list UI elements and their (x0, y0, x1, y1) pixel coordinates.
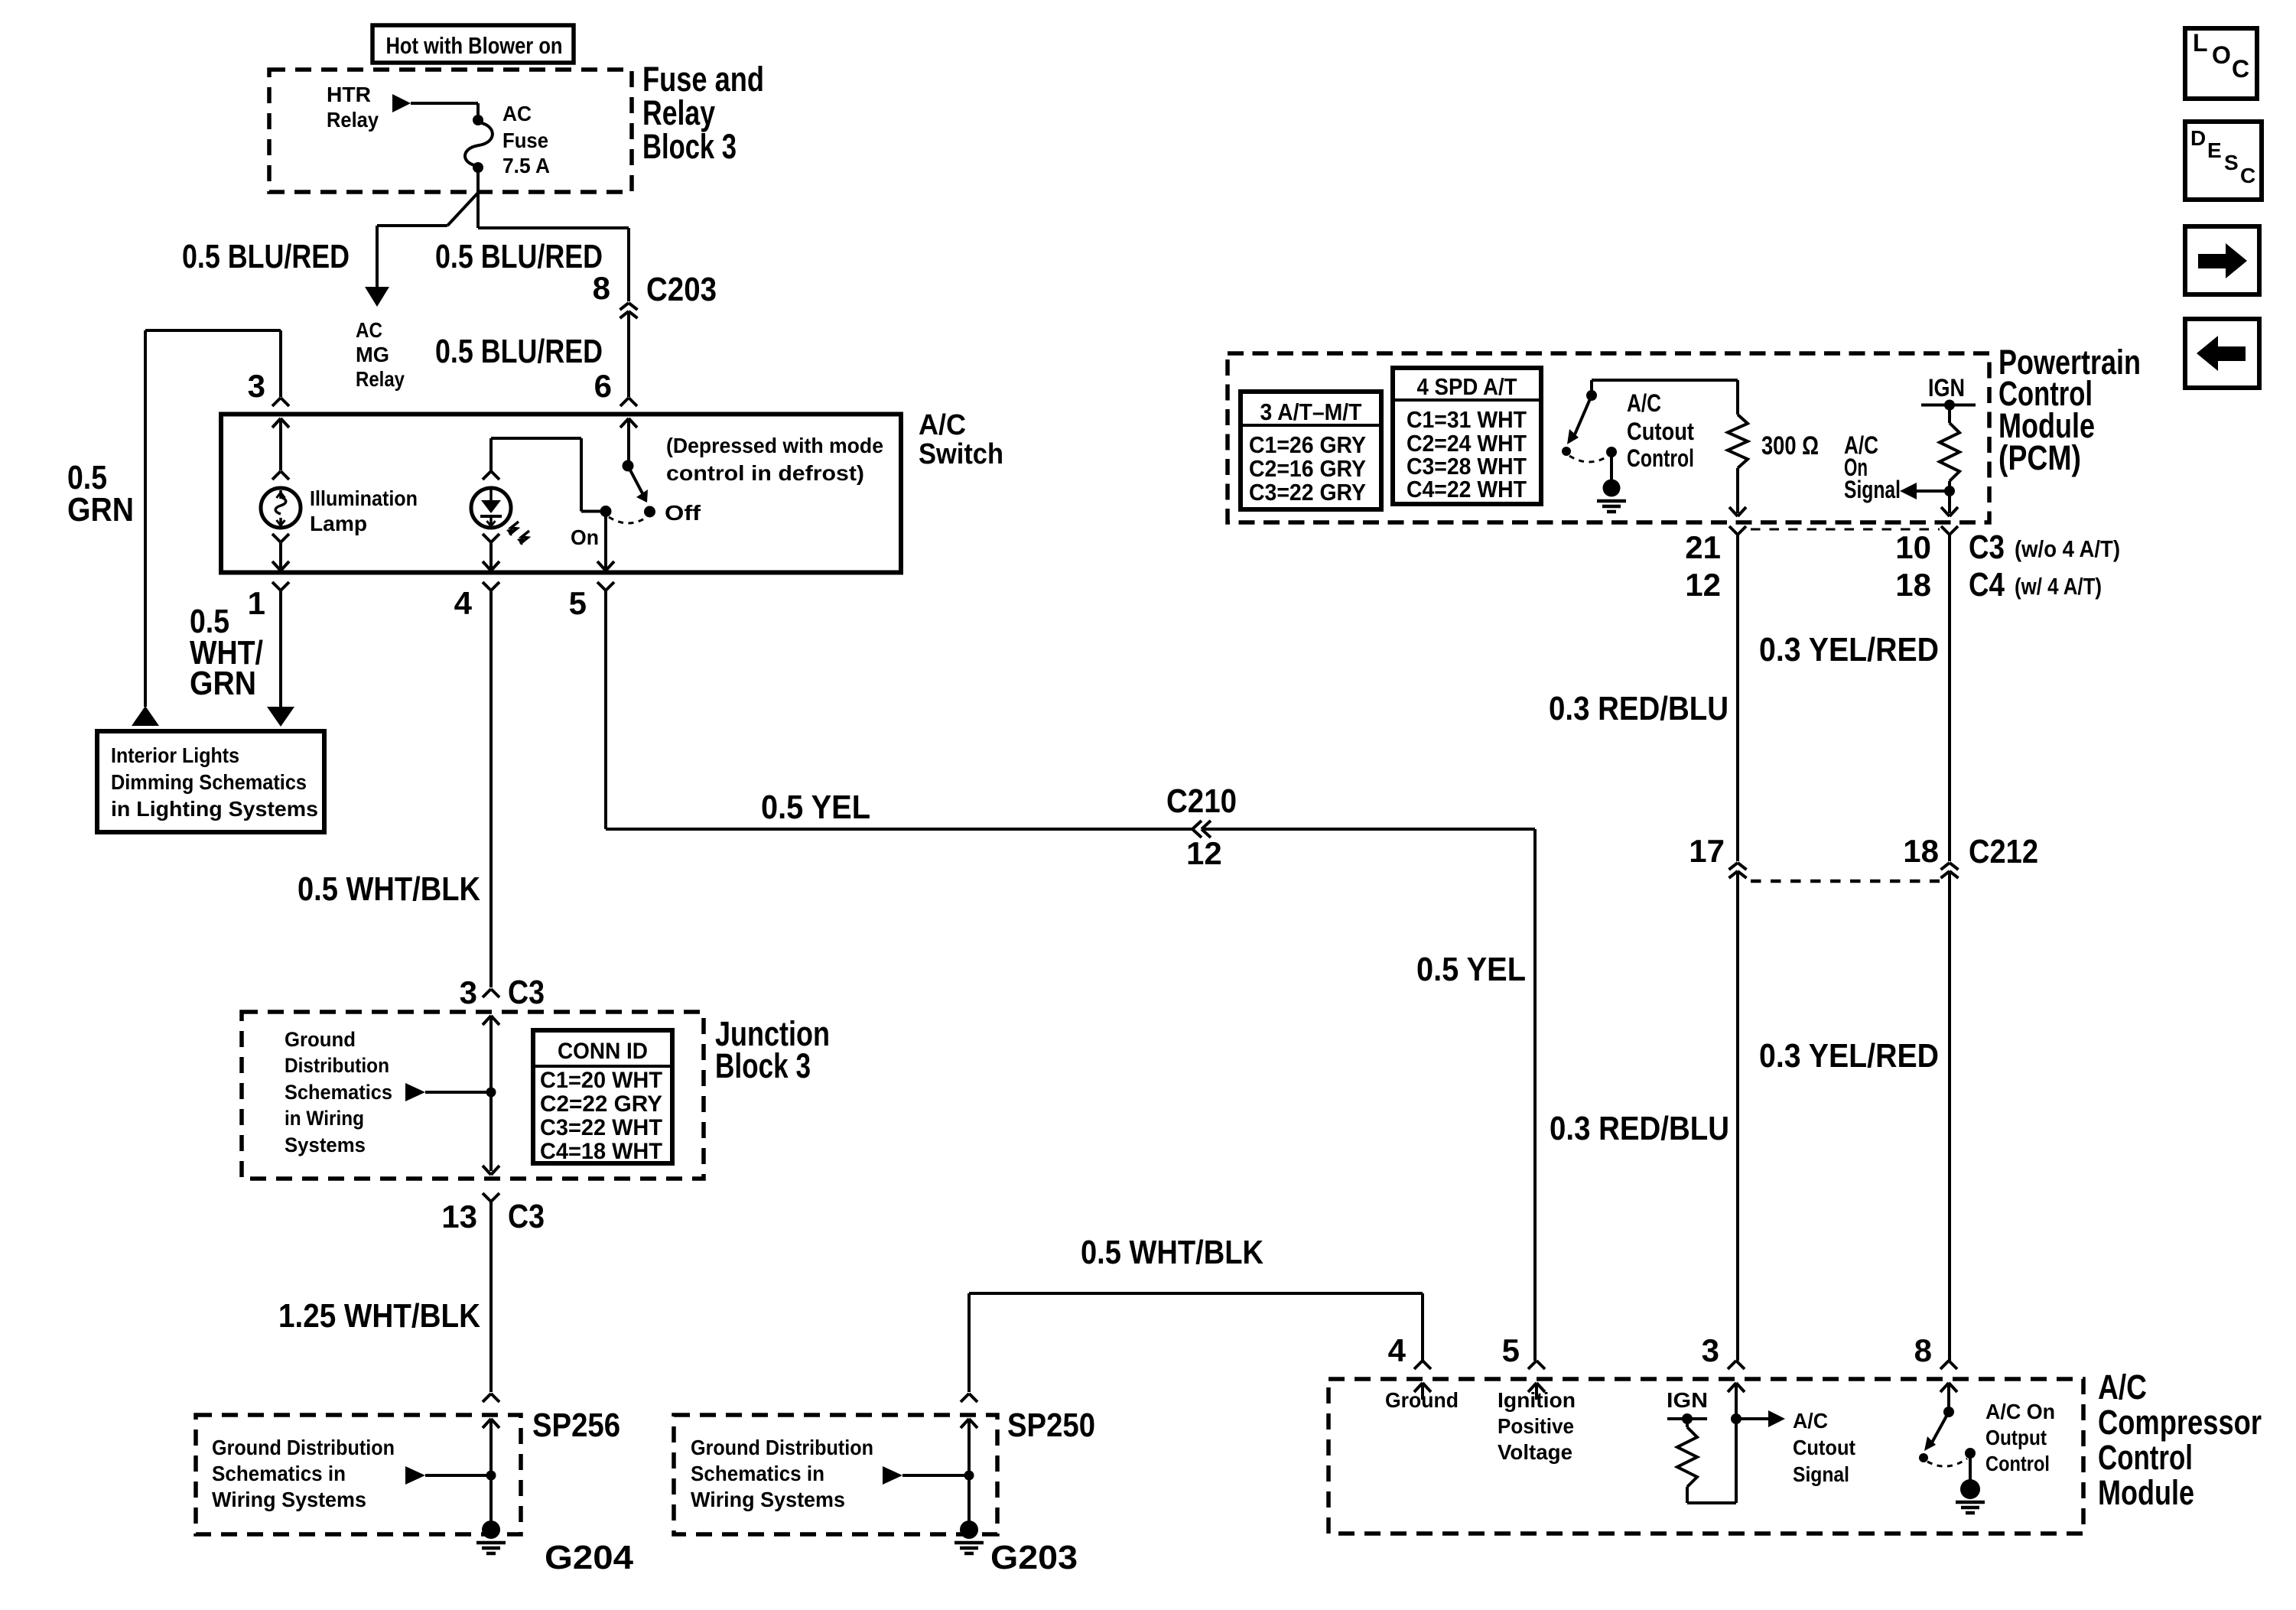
svg-text:Ground: Ground (285, 1028, 356, 1051)
svg-text:(w/ 4 A/T): (w/ 4 A/T) (2015, 573, 2102, 600)
svg-text:C1=26 GRY: C1=26 GRY (1249, 431, 1366, 458)
svg-text:A/C On: A/C On (1985, 1400, 2055, 1423)
svg-text:3 A/T–M/T: 3 A/T–M/T (1260, 398, 1362, 425)
svg-text:18: 18 (1895, 567, 1931, 603)
svg-text:G204: G204 (545, 1539, 634, 1576)
svg-text:Control: Control (2098, 1438, 2193, 1477)
svg-text:C3: C3 (508, 974, 545, 1011)
svg-text:Positive: Positive (1498, 1414, 1574, 1438)
svg-text:1: 1 (248, 585, 265, 621)
svg-text:Distribution: Distribution (285, 1054, 389, 1077)
svg-text:300 Ω: 300 Ω (1761, 431, 1819, 460)
svg-text:Schematics in: Schematics in (691, 1462, 824, 1485)
svg-text:Illumination: Illumination (310, 486, 418, 510)
svg-text:GRN: GRN (190, 665, 256, 702)
svg-text:C2=16 GRY: C2=16 GRY (1249, 455, 1366, 482)
svg-text:A/C: A/C (2098, 1368, 2147, 1407)
svg-text:HTR: HTR (327, 83, 371, 106)
svg-text:Cutout: Cutout (1627, 418, 1694, 445)
svg-text:A/C: A/C (1627, 389, 1661, 417)
svg-text:A/C: A/C (1793, 1409, 1828, 1433)
svg-text:C212: C212 (1969, 833, 2038, 870)
svg-text:S: S (2224, 151, 2239, 174)
svg-text:0.5 WHT/BLK: 0.5 WHT/BLK (298, 870, 480, 908)
svg-text:Signal: Signal (1844, 476, 1901, 503)
svg-text:Compressor: Compressor (2098, 1403, 2262, 1442)
svg-text:AC: AC (356, 318, 382, 342)
svg-text:0.3 RED/BLU: 0.3 RED/BLU (1550, 1110, 1729, 1147)
svg-text:Module: Module (2098, 1473, 2194, 1512)
svg-text:C210: C210 (1166, 782, 1237, 820)
svg-text:E: E (2207, 138, 2222, 162)
svg-text:C3=22 GRY: C3=22 GRY (1249, 479, 1366, 506)
svg-text:0.5 YEL: 0.5 YEL (761, 789, 870, 826)
svg-text:C4=18 WHT: C4=18 WHT (540, 1139, 662, 1164)
svg-text:D: D (2190, 126, 2206, 150)
svg-text:4: 4 (1388, 1332, 1407, 1368)
svg-text:Relay: Relay (327, 108, 379, 132)
svg-text:Hot with Blower on: Hot with Blower on (386, 32, 563, 59)
svg-text:Signal: Signal (1793, 1462, 1849, 1486)
svg-text:5: 5 (1502, 1332, 1520, 1368)
svg-text:A/C: A/C (919, 409, 966, 441)
svg-text:Lamp: Lamp (310, 512, 367, 535)
svg-text:5: 5 (569, 585, 587, 621)
svg-text:in Lighting Systems: in Lighting Systems (111, 797, 318, 821)
svg-text:10: 10 (1895, 529, 1931, 565)
svg-text:3: 3 (248, 368, 265, 404)
svg-text:C4: C4 (1969, 566, 2005, 603)
svg-text:Voltage: Voltage (1498, 1440, 1572, 1464)
svg-text:Schematics in: Schematics in (212, 1462, 346, 1485)
svg-text:7.5 A: 7.5 A (502, 154, 550, 177)
svg-text:3: 3 (1702, 1332, 1719, 1368)
svg-text:6: 6 (594, 368, 612, 404)
svg-text:13: 13 (441, 1199, 477, 1234)
svg-text:L: L (2193, 29, 2208, 57)
svg-text:(PCM): (PCM) (1998, 438, 2081, 477)
svg-text:Off: Off (665, 501, 701, 525)
svg-text:Block 3: Block 3 (715, 1046, 811, 1085)
svg-text:Output: Output (1985, 1426, 2047, 1449)
svg-text:Wiring Systems: Wiring Systems (691, 1488, 845, 1511)
svg-text:12: 12 (1685, 567, 1721, 603)
svg-text:in Wiring: in Wiring (285, 1107, 364, 1130)
svg-text:0.3 RED/BLU: 0.3 RED/BLU (1549, 690, 1729, 727)
svg-text:IGN: IGN (1928, 374, 1965, 402)
svg-text:8: 8 (593, 270, 610, 306)
svg-text:Control: Control (1627, 444, 1694, 472)
svg-text:Ignition: Ignition (1498, 1388, 1576, 1412)
svg-text:0.5 BLU/RED: 0.5 BLU/RED (435, 238, 603, 275)
svg-text:4: 4 (454, 585, 473, 621)
svg-text:Schematics: Schematics (285, 1081, 392, 1104)
svg-text:Ground Distribution: Ground Distribution (212, 1436, 395, 1459)
svg-text:GRN: GRN (67, 491, 134, 529)
svg-text:1.25 WHT/BLK: 1.25 WHT/BLK (278, 1297, 480, 1335)
svg-text:0.3 YEL/RED: 0.3 YEL/RED (1759, 631, 1939, 668)
svg-text:12: 12 (1186, 835, 1222, 871)
svg-text:IGN: IGN (1667, 1388, 1708, 1412)
svg-text:C1=31 WHT: C1=31 WHT (1407, 406, 1527, 433)
svg-text:O: O (2212, 41, 2231, 69)
svg-text:Relay: Relay (356, 367, 405, 391)
svg-text:Systems: Systems (285, 1134, 366, 1156)
svg-text:C3: C3 (508, 1198, 545, 1235)
svg-text:MG: MG (356, 343, 389, 366)
svg-text:Switch: Switch (919, 438, 1003, 470)
svg-text:SP256: SP256 (532, 1407, 620, 1444)
svg-text:Ground: Ground (1385, 1388, 1459, 1412)
svg-text:C: C (2240, 164, 2255, 187)
svg-text:control in defrost): control in defrost) (666, 461, 864, 485)
svg-text:On: On (571, 525, 599, 549)
svg-text:C203: C203 (646, 271, 717, 308)
svg-text:21: 21 (1685, 529, 1721, 565)
svg-text:C: C (2232, 55, 2249, 83)
svg-text:3: 3 (460, 974, 477, 1010)
svg-text:Fuse: Fuse (502, 128, 548, 152)
svg-text:(w/o 4 A/T): (w/o 4 A/T) (2015, 535, 2120, 562)
svg-text:Control: Control (1985, 1452, 2050, 1475)
svg-text:8: 8 (1914, 1332, 1932, 1368)
svg-text:SP250: SP250 (1007, 1407, 1095, 1444)
svg-text:0.5 BLU/RED: 0.5 BLU/RED (435, 333, 603, 370)
svg-text:17: 17 (1689, 833, 1725, 869)
svg-text:0.3 YEL/RED: 0.3 YEL/RED (1759, 1037, 1939, 1075)
svg-text:C1=20 WHT: C1=20 WHT (540, 1068, 662, 1093)
svg-text:AC: AC (502, 102, 532, 125)
svg-text:0.5 YEL: 0.5 YEL (1416, 951, 1526, 988)
svg-text:CONN ID: CONN ID (558, 1039, 648, 1064)
svg-text:Interior Lights: Interior Lights (111, 743, 239, 767)
svg-text:(Depressed with mode: (Depressed with mode (666, 434, 883, 457)
svg-text:18: 18 (1903, 833, 1939, 869)
svg-text:0.5 BLU/RED: 0.5 BLU/RED (182, 238, 350, 275)
svg-text:G203: G203 (990, 1539, 1078, 1576)
svg-text:C3=22 WHT: C3=22 WHT (540, 1115, 662, 1140)
svg-text:C3: C3 (1969, 529, 2005, 566)
svg-text:C4=22 WHT: C4=22 WHT (1407, 476, 1527, 503)
svg-text:4 SPD A/T: 4 SPD A/T (1417, 373, 1517, 400)
svg-text:Dimming Schematics: Dimming Schematics (111, 770, 307, 794)
svg-text:Ground Distribution: Ground Distribution (691, 1436, 873, 1459)
svg-text:Block 3: Block 3 (642, 127, 737, 166)
svg-text:0.5 WHT/BLK: 0.5 WHT/BLK (1081, 1234, 1263, 1271)
svg-text:C2=22 GRY: C2=22 GRY (540, 1091, 662, 1117)
svg-text:Wiring Systems: Wiring Systems (212, 1488, 366, 1511)
svg-text:Cutout: Cutout (1793, 1436, 1855, 1459)
